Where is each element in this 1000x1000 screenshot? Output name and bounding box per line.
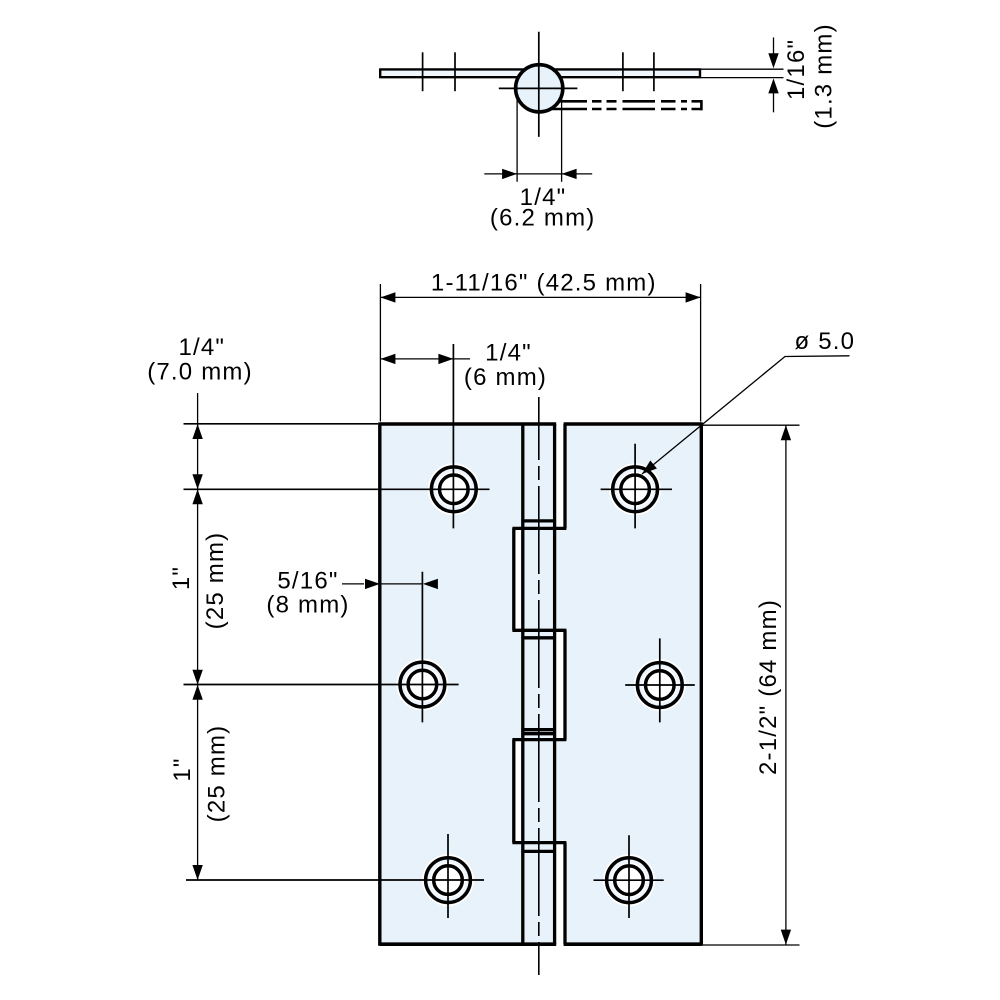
hole bottom-right: outer circle — [603, 854, 655, 906]
front view: bottom edge (with slot gap) — [380, 942, 702, 946]
hole bottom-right: center lines — [594, 835, 664, 918]
top view: lower leaf (open position, dashed) bottom line — [550, 108, 701, 111]
left chain dims: hourglass arrows at middle hole center — [192, 670, 202, 700]
hole bottom-left: inner circle — [430, 862, 465, 897]
svg-text:1": 1" — [168, 566, 195, 590]
svg-text:1/4": 1/4" — [485, 340, 532, 367]
svg-text:1/4": 1/4" — [178, 334, 225, 361]
hole diameter callout: leader line — [642, 356, 850, 474]
top view: upper leaf bar outline — [380, 68, 700, 78]
left chain dims: dimension line — [197, 393, 199, 880]
hole top-left: outer circle — [428, 463, 480, 515]
hole top-right: center lines — [601, 444, 672, 529]
knuckle: barrel right line — [553, 424, 556, 944]
top view: upper leaf bar interior — [380, 70, 701, 76]
dim overall width: right arrowhead — [686, 292, 701, 302]
hole diameter callout: arrowhead — [642, 461, 657, 475]
dim hole x-offset: dimension line with outward arrowheads — [380, 358, 470, 360]
dim knuckle offset 5/16": tail line and arrows — [342, 583, 364, 585]
knuckle: left wall segment 4 — [512, 740, 515, 843]
svg-text:(8 mm): (8 mm) — [266, 591, 349, 618]
svg-text:(25 mm): (25 mm) — [204, 725, 231, 823]
dim leaf thickness: lower arrow — [773, 93, 775, 112]
knuckle: right wall segment 5 — [563, 843, 566, 945]
hole mid-right: inner circle — [642, 667, 677, 702]
svg-text:(1.3 mm): (1.3 mm) — [810, 23, 837, 129]
svg-text:ø 5.0: ø 5.0 — [795, 328, 856, 355]
front view: hinge body fill — [380, 424, 702, 944]
left chain dims: hourglass arrows at first hole center — [192, 474, 202, 504]
hole bottom-left: vertical center line — [447, 834, 449, 918]
top view: screw position tick 4 — [653, 52, 655, 91]
front view: left knuckle slot cutouts (white) — [515, 530, 520, 629]
front view: top edge (with slot gap) — [380, 422, 702, 426]
knuckle: boundary 4 barrel line — [521, 850, 556, 853]
dim pin diameter: right arrowhead — [562, 169, 577, 179]
front view: left edge — [378, 422, 381, 945]
dim overall width: extension lines — [380, 284, 700, 422]
top view: knuckle barrel circle — [516, 65, 563, 112]
knuckle: pin center line (dash-dot) — [538, 397, 540, 975]
knuckle: right wall segment 3 — [563, 630, 566, 739]
dim leaf thickness: upper arrow — [773, 38, 775, 54]
knuckle: boundary 3 barrel line a — [521, 728, 556, 731]
knuckle: right wall segment 1 — [563, 424, 566, 528]
dim overall width: left arrowhead — [380, 292, 395, 302]
knuckle: boundary 4 full line — [512, 841, 566, 844]
svg-text:1": 1" — [169, 757, 196, 781]
svg-text:(25 mm): (25 mm) — [202, 532, 229, 630]
svg-text:1/16": 1/16" — [783, 39, 810, 100]
hole mid-left: vertical center line — [421, 572, 423, 723]
top view: screw position tick 1 — [422, 52, 424, 91]
top view: lower leaf right end cap — [700, 100, 703, 110]
svg-text:(7.0 mm): (7.0 mm) — [147, 359, 253, 386]
dim overall height: top arrowhead — [781, 425, 791, 440]
top view: barrel horizontal center line — [499, 87, 578, 89]
dim pin diameter: left arrowhead — [502, 169, 517, 179]
dim overall height: bottom arrowhead — [781, 930, 791, 945]
hole top-left: vertical center line — [452, 344, 454, 528]
hole mid-left: inner circle — [405, 667, 440, 702]
svg-text:(6.2 mm): (6.2 mm) — [490, 205, 596, 232]
knuckle: left wall segment 2 — [512, 528, 515, 630]
hole mid-right: outer circle — [634, 659, 686, 711]
dim overall height: dimension line — [785, 425, 787, 944]
left chain dims: arrow at bottom hole center — [192, 865, 202, 880]
svg-text:1-11/16" (42.5 mm): 1-11/16" (42.5 mm) — [431, 270, 657, 297]
knuckle: boundary 3 full line — [512, 738, 566, 741]
knuckle: boundary 2 full line — [512, 629, 566, 632]
hole top-right: outer circle — [609, 463, 661, 515]
top view: lower leaf (open position, dashed) top line — [557, 100, 701, 103]
front view: right edge — [700, 422, 703, 945]
top view: barrel vertical center line — [538, 32, 540, 137]
hole mid-right: center lines — [625, 638, 695, 722]
dim overall width: dimension line — [380, 296, 700, 298]
hole bottom-left: outer circle — [422, 854, 474, 906]
knuckle: barrel left line — [521, 424, 524, 944]
knuckle: boundary 2 barrel line — [521, 636, 556, 639]
knuckle: boundary 1 full line — [512, 527, 566, 530]
dim pin diameter: dimension line — [484, 173, 592, 175]
dim overall height: extension lines — [703, 425, 800, 945]
front view: right knuckle slot cutouts (white) — [556, 422, 563, 528]
top view: screw position tick 3 — [622, 52, 624, 91]
hole top-left: inner circle — [436, 472, 471, 507]
svg-text:(6 mm): (6 mm) — [464, 364, 547, 391]
hole mid-left: outer circle — [396, 659, 448, 711]
svg-text:2-1/2" (64 mm): 2-1/2" (64 mm) — [755, 599, 782, 775]
knuckle: boundary 1 barrel line — [521, 519, 556, 522]
left chain dims: arrow at top edge — [192, 424, 202, 439]
left chain dims: extension lines — [184, 424, 490, 880]
hole top-right: inner circle — [617, 472, 652, 507]
top view: leaf thickness extension lines — [701, 69, 784, 77]
hole bottom-right: inner circle — [611, 863, 646, 898]
knuckle: boundary 3 barrel line b — [521, 732, 556, 735]
dim pin diameter: extension lines — [517, 95, 562, 182]
top view: screw position tick 2 — [454, 52, 456, 91]
